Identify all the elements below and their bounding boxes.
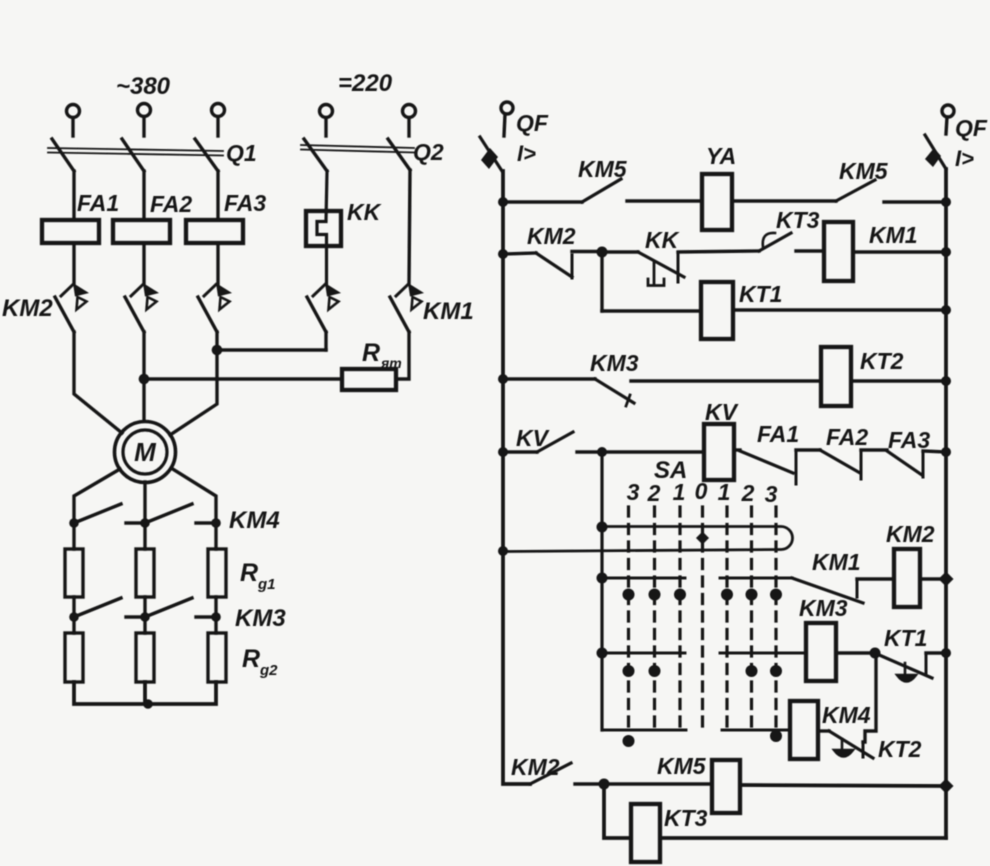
wire phase3 to motor <box>170 332 217 435</box>
time contact KT1 delay dome <box>897 663 916 682</box>
wire phase1 to motor <box>74 332 122 433</box>
SA contact row A loop <box>503 527 793 552</box>
breaker QF left terminal <box>501 102 513 136</box>
terminal L2 <box>138 104 151 137</box>
svg-text:KT3: KT3 <box>776 207 820 233</box>
svg-text:KM3: KM3 <box>799 595 848 621</box>
contact KM2 NC fixed tick <box>571 255 574 278</box>
svg-text:KV: KV <box>705 399 739 425</box>
wire KK to KT3 contact <box>678 251 759 252</box>
SA position line 3 left <box>627 507 630 730</box>
thermal relay KK heater box <box>306 211 341 246</box>
SA position line 3 right <box>774 507 777 730</box>
label Rg1 <box>240 559 276 593</box>
svg-text:I>: I> <box>517 141 536 166</box>
SA contact row C line right <box>720 652 806 655</box>
wire bottom tap down to KT3 coil <box>604 784 631 838</box>
SA contact row B line left <box>602 577 685 580</box>
resistor Rg2 a <box>65 633 83 682</box>
wire FA2 to FA3 <box>861 448 887 451</box>
breaker QF right trip block <box>925 148 941 167</box>
wire KT2 coil to rail <box>851 379 946 382</box>
wire phase3 tap to KK branch <box>217 348 326 351</box>
wire KT1 contact to rail <box>926 651 946 654</box>
node KM3 row right <box>211 612 221 622</box>
time relay KT3 coil <box>631 804 660 862</box>
svg-text:~380: ~380 <box>116 73 171 100</box>
rotor wire middle <box>143 482 146 549</box>
svg-text:0: 0 <box>695 478 708 504</box>
right control rail <box>944 169 948 838</box>
svg-text:R: R <box>242 645 260 673</box>
svg-text:KM2: KM2 <box>2 295 53 322</box>
svg-text:FA1: FA1 <box>77 190 119 216</box>
svg-text:FA3: FA3 <box>888 427 930 453</box>
contact KM2 NO blade bottom <box>530 763 571 784</box>
voltage relay KV coil <box>704 424 734 480</box>
contact KM3 NO tick <box>626 395 630 406</box>
node rail row4 <box>498 374 508 384</box>
svg-text:1: 1 <box>673 479 686 505</box>
node right rail row5 <box>941 447 951 457</box>
contact FA3 fixed tick <box>922 452 925 477</box>
time contact KT2 blade <box>829 731 873 758</box>
SA position line 2 right <box>750 507 753 730</box>
motor M <box>115 422 176 483</box>
node right rail KT1 row <box>941 648 951 658</box>
contact KM4 pole2 blade <box>145 504 192 523</box>
rotor bottom wire <box>74 682 216 704</box>
node rail row1 <box>498 197 508 207</box>
svg-text:g2: g2 <box>259 662 278 679</box>
SA row B closed marks <box>623 589 783 601</box>
wire KM2 bottom to node <box>575 782 604 785</box>
contact KM3 NO blade <box>595 379 634 403</box>
node right rail bottom <box>939 779 954 794</box>
SA row A closed mark position 0 <box>696 532 709 545</box>
wire row2 node down to KT1 row <box>600 252 603 311</box>
contact FA1 blade <box>740 451 793 473</box>
wire row1 right <box>884 200 946 203</box>
node phase2 tap <box>139 374 150 385</box>
time relay KT1 coil <box>701 282 733 339</box>
SA position line 1 right <box>725 507 728 730</box>
contact FA1 fixed tick <box>795 452 798 484</box>
svg-text:KM2: KM2 <box>527 223 576 249</box>
contact KM1 fixed tick row B <box>856 581 859 597</box>
SA middle feeder vertical <box>600 452 603 730</box>
node KM3 row left <box>69 612 79 622</box>
time contact KT2 fixed tick <box>862 742 865 757</box>
contact KM3 pole2 fixed stub <box>196 615 214 618</box>
node KM4 row left <box>69 518 79 528</box>
label Rg2 <box>242 645 278 679</box>
wire KV contact to node <box>577 450 602 453</box>
svg-text:1: 1 <box>718 479 731 505</box>
svg-text:Q2: Q2 <box>413 139 444 165</box>
wire KM5 coil to rail <box>740 785 946 786</box>
contact KM3 pole1 blade <box>74 598 121 617</box>
wire KM4 coil to KT2 contact <box>818 729 829 732</box>
wire KM2 NC to node <box>572 250 602 253</box>
contact KV blade <box>537 432 573 452</box>
node row C on feeder <box>597 648 608 659</box>
svg-text:Q1: Q1 <box>226 140 257 166</box>
left control rail <box>503 171 530 784</box>
time contact KT3 delay arc <box>763 233 775 247</box>
svg-text:KT2: KT2 <box>860 348 904 374</box>
contact KM4 pole2 fixed stub <box>196 521 214 524</box>
switch Q2 linkage bar <box>301 145 414 153</box>
svg-text:KM5: KM5 <box>839 158 889 184</box>
svg-text:QF: QF <box>516 110 549 136</box>
thermal contact KK blade <box>638 252 684 277</box>
wire YA to KM5 right <box>732 199 836 202</box>
svg-text:FA2: FA2 <box>826 424 868 450</box>
svg-text:KT3: KT3 <box>664 805 708 831</box>
wire phase1 Q1 to FA1 <box>72 171 75 220</box>
node row5 tap <box>597 447 607 457</box>
knife switch Q1 blade 1 <box>52 139 74 171</box>
wire FA3 to KM2 contact <box>216 243 219 284</box>
contact FA3 blade <box>887 451 922 475</box>
node right rail row3 <box>941 305 951 315</box>
wire Q2 to KK heater with inner jog <box>317 171 327 284</box>
node phase3 tap <box>212 345 223 356</box>
contactor KM1 coil <box>824 222 853 281</box>
SA row C closed marks <box>623 665 783 677</box>
resistor Rg2 c <box>208 633 226 682</box>
contact KM4 pole1 fixed stub <box>126 521 144 524</box>
contactor KM2 coil <box>894 549 920 607</box>
terminal L3 <box>212 104 225 137</box>
wire FA2 to KM2 contact <box>142 243 145 284</box>
wire KT3 coil to rail corner <box>660 836 946 840</box>
svg-text:3: 3 <box>627 479 640 505</box>
node rail row5 <box>498 447 508 457</box>
contact KM1 NO blade row B <box>792 578 863 603</box>
SA contact row D line right <box>722 729 790 732</box>
wire phase2 Q1 to FA2 <box>142 171 145 220</box>
wire KM1 coil to rail <box>853 250 946 253</box>
wire row1 to YA <box>627 199 702 202</box>
time contact KT2 delay dome <box>834 739 853 757</box>
svg-text:YA: YA <box>706 143 736 169</box>
svg-text:FA3: FA3 <box>224 190 266 216</box>
svg-text:KV: KV <box>516 425 550 451</box>
contactor KM2 main contact pole3 <box>198 283 232 332</box>
resistor Rg1 c <box>208 549 226 597</box>
knife switch Q1 blade 3 <box>195 139 218 171</box>
node KM3 row middle <box>140 612 150 622</box>
SA contact row C line left <box>602 652 685 655</box>
contact FA2 blade <box>820 450 860 473</box>
terminal L1 <box>67 105 80 137</box>
contact KM2 NC blade <box>536 253 572 277</box>
breaker QF right terminal <box>942 105 954 134</box>
wire KK branch to phase3 tap <box>324 332 327 350</box>
svg-text:M: M <box>134 437 157 467</box>
svg-text:R: R <box>362 339 380 367</box>
svg-text:KM3: KM3 <box>235 605 286 632</box>
contactor KM2 main contact pole1 <box>55 283 89 332</box>
label Rqt <box>362 339 402 371</box>
svg-text:KM1: KM1 <box>423 298 474 325</box>
SA position line 0 <box>701 507 704 730</box>
wire KM1 contact to KM2 coil <box>857 577 894 580</box>
time contact KT1 fixed tick <box>925 655 928 674</box>
svg-text:KM3: KM3 <box>590 350 639 376</box>
node row B on feeder <box>597 573 608 584</box>
contact KM5 row1 right blade <box>836 180 875 201</box>
wire node to KV coil <box>602 450 704 453</box>
node rotor star point <box>143 699 153 709</box>
rotor wire left <box>74 469 120 549</box>
SA contact row D line left <box>602 729 686 732</box>
node row2 tap <box>597 247 608 258</box>
wire KV coil to FA1 <box>734 448 740 451</box>
svg-text:QF: QF <box>955 115 988 141</box>
node KM4 row middle <box>140 518 150 528</box>
svg-text:I>: I> <box>955 146 974 171</box>
breaker QF left blade <box>480 137 502 171</box>
contact KM3 pole2 blade <box>145 598 192 617</box>
svg-text:2: 2 <box>741 480 755 506</box>
wire FA3 to rail <box>923 451 946 452</box>
resistor Rg1 a <box>65 549 83 597</box>
switch Q1 linkage bar <box>48 148 223 156</box>
breaker QF right blade <box>925 135 946 169</box>
node rail row2 <box>498 249 508 259</box>
node row A on feeder <box>597 522 608 533</box>
wire Rg1 to KM3 row <box>74 597 216 633</box>
contact KM5 row1 left blade <box>582 179 621 202</box>
node KT1 contact <box>870 648 881 659</box>
contactor KM3 coil <box>806 623 836 681</box>
SA position line 1 left <box>678 507 681 730</box>
svg-text:3: 3 <box>765 481 778 507</box>
fuse FA3 <box>186 220 243 243</box>
contactor KM4 coil <box>790 701 818 759</box>
wire KT3 to KM1 coil <box>796 249 824 252</box>
wire KM3 to KT2 coil <box>631 379 821 382</box>
svg-text:FA2: FA2 <box>150 191 192 217</box>
wire KM3 coil to KT1 contact <box>836 651 875 654</box>
wire KT2 contact up to KT1 node <box>863 653 876 742</box>
svg-text:=220: =220 <box>338 70 393 97</box>
wire row1 left <box>503 200 582 203</box>
wire FA1 to FA2 <box>796 448 820 451</box>
contact KM3 pole1 fixed stub <box>126 615 144 618</box>
wire row4 left <box>503 377 595 380</box>
wire row2 left <box>503 253 536 254</box>
wire phase3 Q1 to FA3 <box>216 171 219 220</box>
wire node to KM5 coil <box>604 782 712 785</box>
resistor Rg2 b <box>136 633 154 682</box>
knife switch Q1 blade 2 <box>122 139 144 171</box>
time contact KT3 blade <box>759 233 791 251</box>
resistor Rqt <box>342 369 396 390</box>
wire KM1 contact to Rqt <box>396 332 409 379</box>
contactor KM5 coil <box>712 760 740 813</box>
SA position digits <box>627 478 778 507</box>
fuse FA2 <box>113 220 170 243</box>
node rail SA return <box>498 546 508 556</box>
wire row5 left <box>503 450 537 453</box>
knife switch Q2 blade 1 <box>304 139 327 171</box>
fuse FA1 <box>42 220 99 243</box>
wire node to KK contact <box>602 250 638 253</box>
svg-text:ят: ят <box>380 355 402 371</box>
rotor wire right <box>171 468 216 549</box>
svg-text:KK: KK <box>347 199 382 225</box>
svg-text:2: 2 <box>647 480 661 506</box>
wire KT1 row left <box>602 309 701 312</box>
wire FA1 to KM2 contact <box>72 243 75 284</box>
thermal contact KK release symbol <box>648 262 664 286</box>
node right rail row4 <box>941 376 951 386</box>
wire KT1 coil to rail <box>733 308 946 311</box>
node right rail row1 <box>941 197 951 207</box>
svg-text:g1: g1 <box>257 576 276 593</box>
terminal DC minus <box>403 105 416 137</box>
svg-text:KM4: KM4 <box>822 702 871 728</box>
node bottom tap <box>599 779 610 790</box>
svg-text:KM2: KM2 <box>511 754 560 780</box>
time contact KT1 blade <box>877 654 932 678</box>
svg-text:KT1: KT1 <box>739 281 782 307</box>
time relay KT2 coil <box>821 347 851 406</box>
resistor Rg1 b <box>136 549 154 597</box>
knife switch Q2 blade 2 <box>388 139 410 170</box>
svg-text:KM5: KM5 <box>578 156 628 182</box>
SA position line 2 left <box>653 507 656 730</box>
contact KM4 pole1 blade <box>74 504 121 523</box>
terminal DC plus <box>320 105 333 137</box>
wire phase2 to motor <box>142 332 145 421</box>
contactor KM1 main contact pole1 <box>307 283 341 332</box>
contactor KM2 main contact pole2 <box>125 283 159 332</box>
svg-text:R: R <box>240 559 258 587</box>
wire phase2 tap to Rqt <box>144 377 342 380</box>
contactor KM1 main contact pole2 <box>390 283 424 332</box>
svg-text:FA1: FA1 <box>757 421 799 447</box>
svg-text:KM4: KM4 <box>229 507 280 534</box>
svg-text:KM1: KM1 <box>812 549 861 575</box>
svg-text:KM2: KM2 <box>886 521 935 547</box>
electromagnet YA coil <box>702 174 732 230</box>
thermal contact KK fixed tick <box>677 255 680 282</box>
wire Q2 to KM1 contact <box>409 170 410 284</box>
wire KM2 coil to rail <box>920 577 946 580</box>
breaker QF left trip block <box>481 148 498 169</box>
node right rail KM2 coil <box>939 572 954 587</box>
svg-text:KK: KK <box>645 227 680 253</box>
contact FA2 fixed tick <box>860 451 863 479</box>
svg-text:KT2: KT2 <box>878 736 922 762</box>
svg-text:KM1: KM1 <box>869 222 918 248</box>
svg-text:KM5: KM5 <box>657 753 707 779</box>
node right rail row2 <box>941 247 951 257</box>
SA row D closed marks <box>623 730 783 747</box>
node KM4 row right <box>211 518 221 528</box>
SA contact row B line right <box>720 577 792 580</box>
svg-text:KT1: KT1 <box>884 625 927 651</box>
